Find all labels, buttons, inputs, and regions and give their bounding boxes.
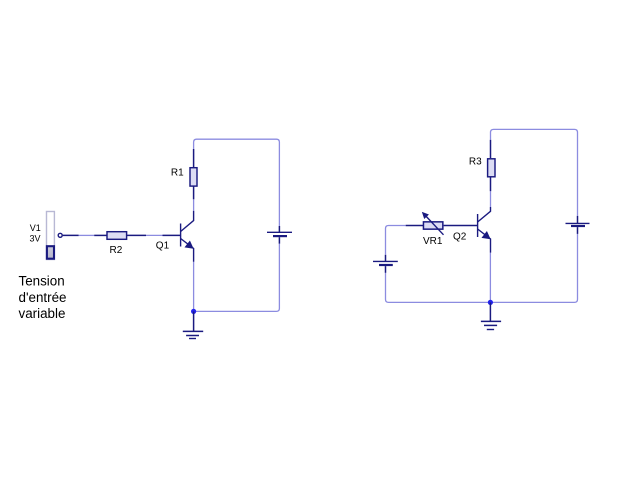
svg-text:d'entrée: d'entrée xyxy=(19,290,67,305)
wire top loop left circuit (R1 top to battery top) xyxy=(194,139,280,226)
svg-text:variable: variable xyxy=(19,306,66,321)
wire R3 bottom to Q2 collector (light segment) xyxy=(490,191,492,207)
svg-text:Q1: Q1 xyxy=(156,241,170,252)
transistor Q1 (NPN) xyxy=(163,211,194,262)
wire R1 bottom to Q1 collector (light segment) xyxy=(193,199,195,211)
svg-text:Q2: Q2 xyxy=(453,232,467,243)
resistor R3 xyxy=(488,140,495,191)
wire top loop right circuit (R3 top to battery top) xyxy=(491,129,578,216)
wire V1 to R2 (light segment) xyxy=(79,234,95,236)
svg-text:R3: R3 xyxy=(469,157,482,168)
junction node (right circuit) xyxy=(488,300,493,305)
wire left battery top to VR1 xyxy=(386,226,406,255)
battery B3 (right circuit, right side) xyxy=(566,216,590,234)
transistor Q2 (NPN) xyxy=(478,207,491,253)
ground stem (right) xyxy=(489,302,491,321)
voltage source V1 (variable supply slider) xyxy=(47,212,55,260)
svg-text:R1: R1 xyxy=(171,168,184,179)
svg-text:V1: V1 xyxy=(30,223,41,233)
V1 pin wire xyxy=(63,234,79,236)
ground symbol (left) xyxy=(183,331,203,338)
wire junction to left battery (bottom wire) xyxy=(386,273,491,303)
svg-text:3V: 3V xyxy=(30,233,41,243)
wire R2 to Q1 base (light segment) xyxy=(146,234,163,236)
svg-text:R2: R2 xyxy=(110,245,123,256)
battery B2 (right circuit, left side) xyxy=(373,255,398,273)
ground symbol (right) xyxy=(481,321,501,329)
resistor R1 xyxy=(190,149,197,199)
battery B1 (left circuit) xyxy=(267,226,292,244)
variable resistor VR1 xyxy=(406,213,478,235)
terminal node (open circle) xyxy=(58,233,62,237)
ground stem (left) xyxy=(193,311,195,331)
junction node (left circuit) xyxy=(191,309,196,314)
resistor R2 xyxy=(94,232,146,240)
wire Q1 emitter to junction (light segment) xyxy=(193,262,195,312)
svg-text:Tension: Tension xyxy=(19,273,65,288)
wire Q2 emitter to junction (light segment) xyxy=(489,253,491,303)
wire battery bottom to bottom-left corner xyxy=(194,244,280,312)
wire right battery bottom to junction (bottom wire) xyxy=(490,234,577,303)
svg-text:VR1: VR1 xyxy=(423,236,443,247)
